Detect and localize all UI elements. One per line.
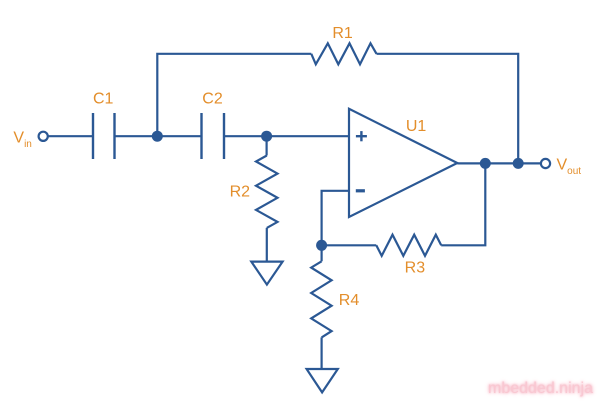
node A (C1/C2/R1 junction) [152, 131, 163, 142]
svg-text:Vin: Vin [13, 129, 31, 150]
op-amp U1 plus pin mark [356, 131, 367, 141]
svg-text:R3: R3 [405, 260, 426, 277]
op-amp U1 [349, 109, 457, 217]
wire node C down to R4 [321, 245, 323, 261]
node D (output/R3 junction) [480, 158, 491, 169]
wire R3 up to output node [441, 163, 485, 245]
input terminal Vin [39, 132, 48, 141]
wire node B down to R2 [266, 136, 268, 155]
wire op-amp output to Vout [457, 162, 540, 164]
ground (below R2) [251, 262, 282, 285]
svg-text:R4: R4 [339, 292, 360, 309]
wire node A up and across to R1 [157, 54, 311, 136]
wire R1 to output node [377, 54, 519, 164]
resistor R4 [311, 261, 331, 337]
node E (output/R1 junction) [513, 158, 524, 169]
ground (below R4) [307, 369, 338, 392]
svg-text:C2: C2 [202, 91, 223, 108]
capacitor C1 [93, 113, 115, 159]
node C (R3/R4/inverting-input junction) [316, 240, 327, 251]
op-amp U1 minus pin mark [356, 189, 365, 192]
svg-text:Vout: Vout [557, 157, 582, 178]
wire R2 to ground [266, 228, 268, 262]
wire C2 to op-amp non-inverting input [224, 135, 349, 137]
svg-text:R2: R2 [230, 184, 251, 201]
output terminal Vout [541, 159, 550, 168]
wire R4 to ground [321, 337, 323, 369]
resistor R1 [311, 43, 376, 64]
svg-text:C1: C1 [93, 91, 114, 108]
svg-text:R1: R1 [332, 25, 353, 42]
wire Vin to C1 [48, 135, 92, 137]
resistor R3 [376, 235, 441, 256]
wire C1 to C2 [115, 135, 202, 137]
wire node C to R3 [322, 244, 377, 246]
node B (C2/R2 junction) [261, 131, 272, 142]
capacitor C2 [202, 113, 225, 159]
svg-text:U1: U1 [406, 118, 427, 135]
resistor R2 [256, 156, 278, 228]
wire op-amp inverting input to node C [322, 191, 349, 246]
